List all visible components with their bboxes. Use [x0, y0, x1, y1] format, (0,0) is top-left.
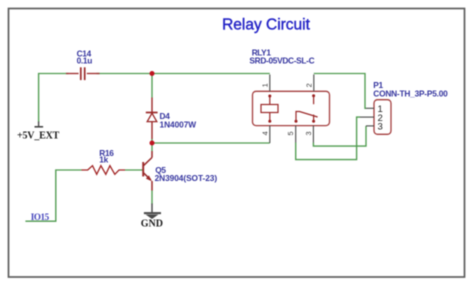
relay pin 1 [260, 75, 270, 92]
wire Q5 emitter to GND [151, 191, 153, 205]
ground GND [141, 204, 163, 230]
svg-text:GND: GND [141, 219, 163, 230]
svg-text:1N4007W: 1N4007W [160, 119, 197, 129]
+5V_EXT power port [17, 122, 60, 142]
relay RLY1 body [253, 91, 330, 125]
connector P1 pin 2 [360, 113, 383, 124]
svg-text:IO15: IO15 [31, 212, 50, 222]
connector P1 body [374, 100, 391, 135]
capacitor C14 [66, 67, 100, 80]
label RLY1 value [249, 47, 314, 65]
svg-text:4: 4 [260, 131, 269, 135]
junction node A on top wire [150, 71, 155, 76]
wire top horizontal left (+5V to C14) [39, 74, 69, 123]
svg-text:1: 1 [260, 83, 269, 87]
label D4 value [160, 111, 197, 130]
connector P1 pin 3 [366, 122, 383, 133]
relay pin 4 [260, 126, 270, 143]
wire R16 to Q5 base [125, 169, 143, 171]
wire C14 to relay pin1 (through node) [97, 73, 270, 75]
svg-text:SRD-05VDC-SL-C: SRD-05VDC-SL-C [249, 55, 314, 65]
label C14 value [77, 49, 93, 66]
svg-text:3: 3 [304, 131, 313, 135]
resistor R16 [82, 166, 126, 175]
wire relay pin3 to P1 pin3 [313, 126, 366, 146]
wire relay pin5 to P1 pin2 [296, 117, 360, 160]
svg-text:1k: 1k [99, 154, 108, 164]
relay pin 5 [286, 126, 296, 143]
label P1 value [373, 80, 448, 98]
wire node B to Q5 collector [151, 143, 153, 151]
wire D4 bottom to node B [151, 139, 153, 143]
relay pin 3 [304, 126, 314, 143]
transistor Q5 [143, 151, 152, 191]
svg-text:2N3904(SOT-23): 2N3904(SOT-23) [155, 173, 218, 183]
wire node to D4 top [151, 74, 153, 98]
wire node B to relay pin4 [152, 142, 270, 144]
label Q5 value [155, 165, 218, 183]
label R16 value [99, 148, 114, 165]
svg-text:2: 2 [304, 83, 313, 87]
svg-text:CONN-TH_3P-P5.00: CONN-TH_3P-P5.00 [373, 88, 448, 98]
svg-text:5: 5 [286, 131, 295, 135]
junction node B above Q5 [150, 141, 155, 146]
svg-text:+5V_EXT: +5V_EXT [17, 131, 60, 142]
relay pin 2 [304, 75, 314, 92]
connector P1 pin 1 [366, 104, 383, 115]
diode D4 [146, 98, 158, 140]
svg-text:Relay Circuit: Relay Circuit [222, 17, 311, 34]
svg-text:0.1u: 0.1u [77, 56, 93, 66]
wire relay pin2 to P1 pin1 [314, 74, 366, 109]
relay switch contacts [295, 94, 318, 122]
wire IO15 to R16 [25, 170, 81, 221]
relay coil [261, 95, 278, 123]
svg-text:3: 3 [378, 122, 383, 133]
